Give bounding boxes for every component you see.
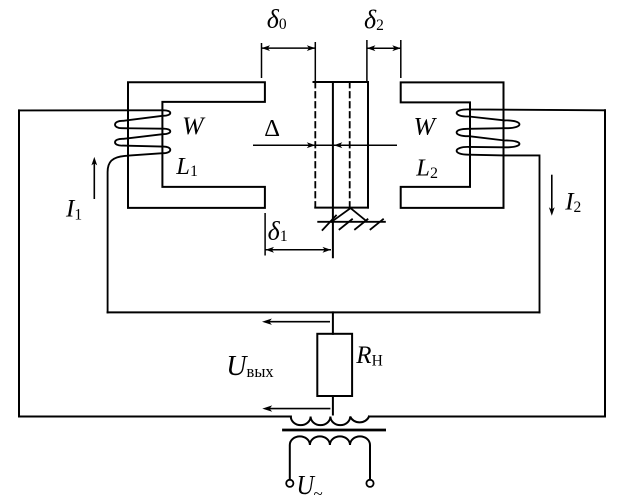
svg-text:Δ: Δ xyxy=(264,115,280,142)
coil L1 winding xyxy=(19,110,170,312)
terminal right xyxy=(366,480,373,487)
armature dashed (neutral position) xyxy=(315,82,349,208)
output arrow upper xyxy=(262,319,330,325)
coil L2 winding xyxy=(457,109,605,312)
transformer T1 secondary winding xyxy=(290,436,370,479)
wire: middle bus xyxy=(108,311,540,313)
svg-text:I2: I2 xyxy=(564,188,581,216)
svg-text:L1: L1 xyxy=(175,153,198,180)
wire: resistor top lead xyxy=(332,312,334,333)
wire: resistor bottom lead xyxy=(332,396,334,415)
dimension delta0 xyxy=(262,42,316,82)
transformer T1 primary winding xyxy=(291,417,369,426)
transformer T1 core xyxy=(284,429,385,432)
armature (solid position) xyxy=(314,82,369,257)
svg-text:δ1: δ1 xyxy=(268,217,288,246)
pivot support xyxy=(318,208,385,230)
terminal left xyxy=(286,480,293,487)
svg-text:RН: RН xyxy=(355,342,382,370)
current arrow I1 xyxy=(91,157,97,199)
dimension delta1 xyxy=(265,213,331,256)
core E2 (right C-core) xyxy=(401,82,504,207)
dimension delta (armature displacement) xyxy=(253,144,397,146)
svg-text:δ2: δ2 xyxy=(364,5,384,34)
svg-text:U~: U~ xyxy=(297,470,323,503)
wire: bottom bus xyxy=(19,416,291,418)
dimension delta2 xyxy=(367,40,401,82)
svg-text:Uвых: Uвых xyxy=(226,351,274,382)
wire: left outer loop xyxy=(18,110,20,416)
svg-text:L2: L2 xyxy=(415,155,438,182)
output arrow lower xyxy=(262,405,330,411)
resistor RH body xyxy=(317,334,352,396)
svg-text:I1: I1 xyxy=(65,196,82,224)
wire: right outer loop xyxy=(604,110,606,416)
core E1 (left C-core) xyxy=(128,82,265,208)
svg-text:W: W xyxy=(182,113,206,140)
svg-text:δ0: δ0 xyxy=(267,5,287,34)
current arrow I2 xyxy=(549,175,555,216)
svg-text:W: W xyxy=(414,113,438,140)
